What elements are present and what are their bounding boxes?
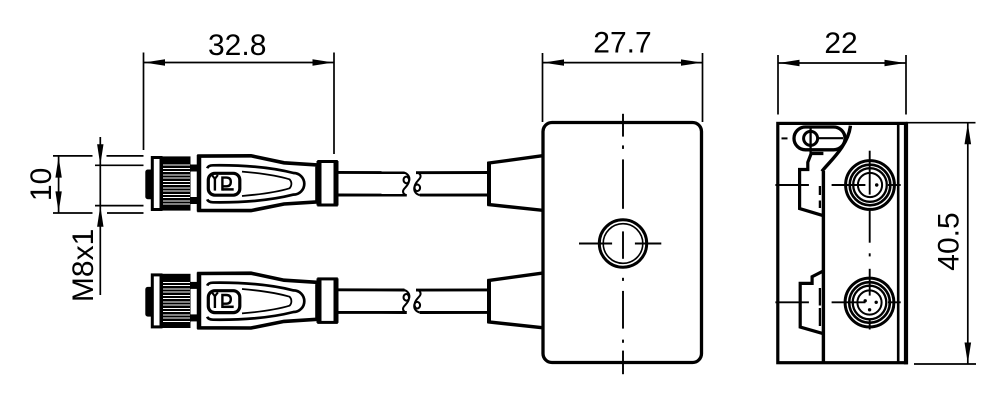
socket bottom pin dot below xyxy=(868,308,871,311)
cable break symbol right xyxy=(414,173,420,196)
gland profile top (side view) xyxy=(800,154,824,216)
junction box (top view) xyxy=(543,123,702,363)
gland profile bottom hidden edge dashes xyxy=(819,288,821,326)
dimension 27.7 line xyxy=(543,53,703,122)
gland profile top hidden edge dashes xyxy=(819,186,821,208)
body V-groove inner line xyxy=(242,172,291,196)
svg-text:M8x1: M8x1 xyxy=(67,229,100,302)
dimension 22 arrows xyxy=(779,60,906,66)
P+F logo emblem xyxy=(212,175,234,191)
dimension 32.8 line xyxy=(144,53,335,155)
dimension 27.7 arrows xyxy=(543,59,702,65)
socket bottom pin dot right xyxy=(875,301,878,304)
box center hole outer circle xyxy=(599,220,646,267)
svg-text:22: 22 xyxy=(824,27,857,60)
socket port top circles xyxy=(846,161,895,210)
thread label M8x1 dimension line xyxy=(95,137,144,295)
mounting keyhole slot xyxy=(794,127,845,150)
body V-groove outer line xyxy=(207,165,304,202)
dimension 22 line xyxy=(778,55,906,115)
side view face edge line xyxy=(822,171,825,364)
knurled coupling nut xyxy=(163,156,191,210)
svg-text:10: 10 xyxy=(25,168,58,201)
side view right edge thick line xyxy=(904,122,908,364)
svg-text:32.8: 32.8 xyxy=(208,29,266,62)
cable gland trapezoid (top view) xyxy=(489,156,544,211)
socket top pin dot xyxy=(875,183,878,186)
svg-text:27.7: 27.7 xyxy=(593,27,651,60)
P+F logo plate xyxy=(208,173,240,195)
box horizontal center line xyxy=(579,243,661,245)
svg-text:40.5: 40.5 xyxy=(932,212,965,270)
box center hole inner circle xyxy=(603,224,643,264)
dimension 32.8 arrows xyxy=(144,59,333,65)
dimension 40.5 arrows xyxy=(965,123,972,363)
socket port bottom circles xyxy=(845,278,894,327)
box vertical center line xyxy=(622,114,624,374)
dimension 10 arrows xyxy=(55,157,61,212)
connector assembly 2 (bottom M8 plug, cable, gland) xyxy=(145,272,543,329)
sockets vertical center line xyxy=(869,151,871,330)
gland profile bottom (side view) xyxy=(800,271,823,334)
connector assembly 1 (top M8 plug, cable, gland) xyxy=(145,155,543,212)
side view outer body xyxy=(778,123,906,362)
socket bottom pin dot left xyxy=(864,299,867,302)
neck ring tabs xyxy=(191,165,198,172)
socket top horizontal center line xyxy=(775,184,900,186)
dimension 40.5 line xyxy=(906,123,976,364)
dimension 10 line xyxy=(53,156,144,213)
M8 thread stub xyxy=(145,170,153,200)
side view inner right edge line xyxy=(897,123,900,362)
front washer ring xyxy=(152,158,161,210)
thread label M8x1 arrows xyxy=(97,144,103,227)
side view corner arc xyxy=(822,126,851,172)
molded body outline xyxy=(199,156,317,211)
cable end collar xyxy=(319,162,337,206)
cable break symbol left xyxy=(403,173,409,196)
cable right segment xyxy=(416,173,490,196)
socket bottom horizontal center line xyxy=(775,301,900,303)
cable left segment xyxy=(339,172,407,195)
